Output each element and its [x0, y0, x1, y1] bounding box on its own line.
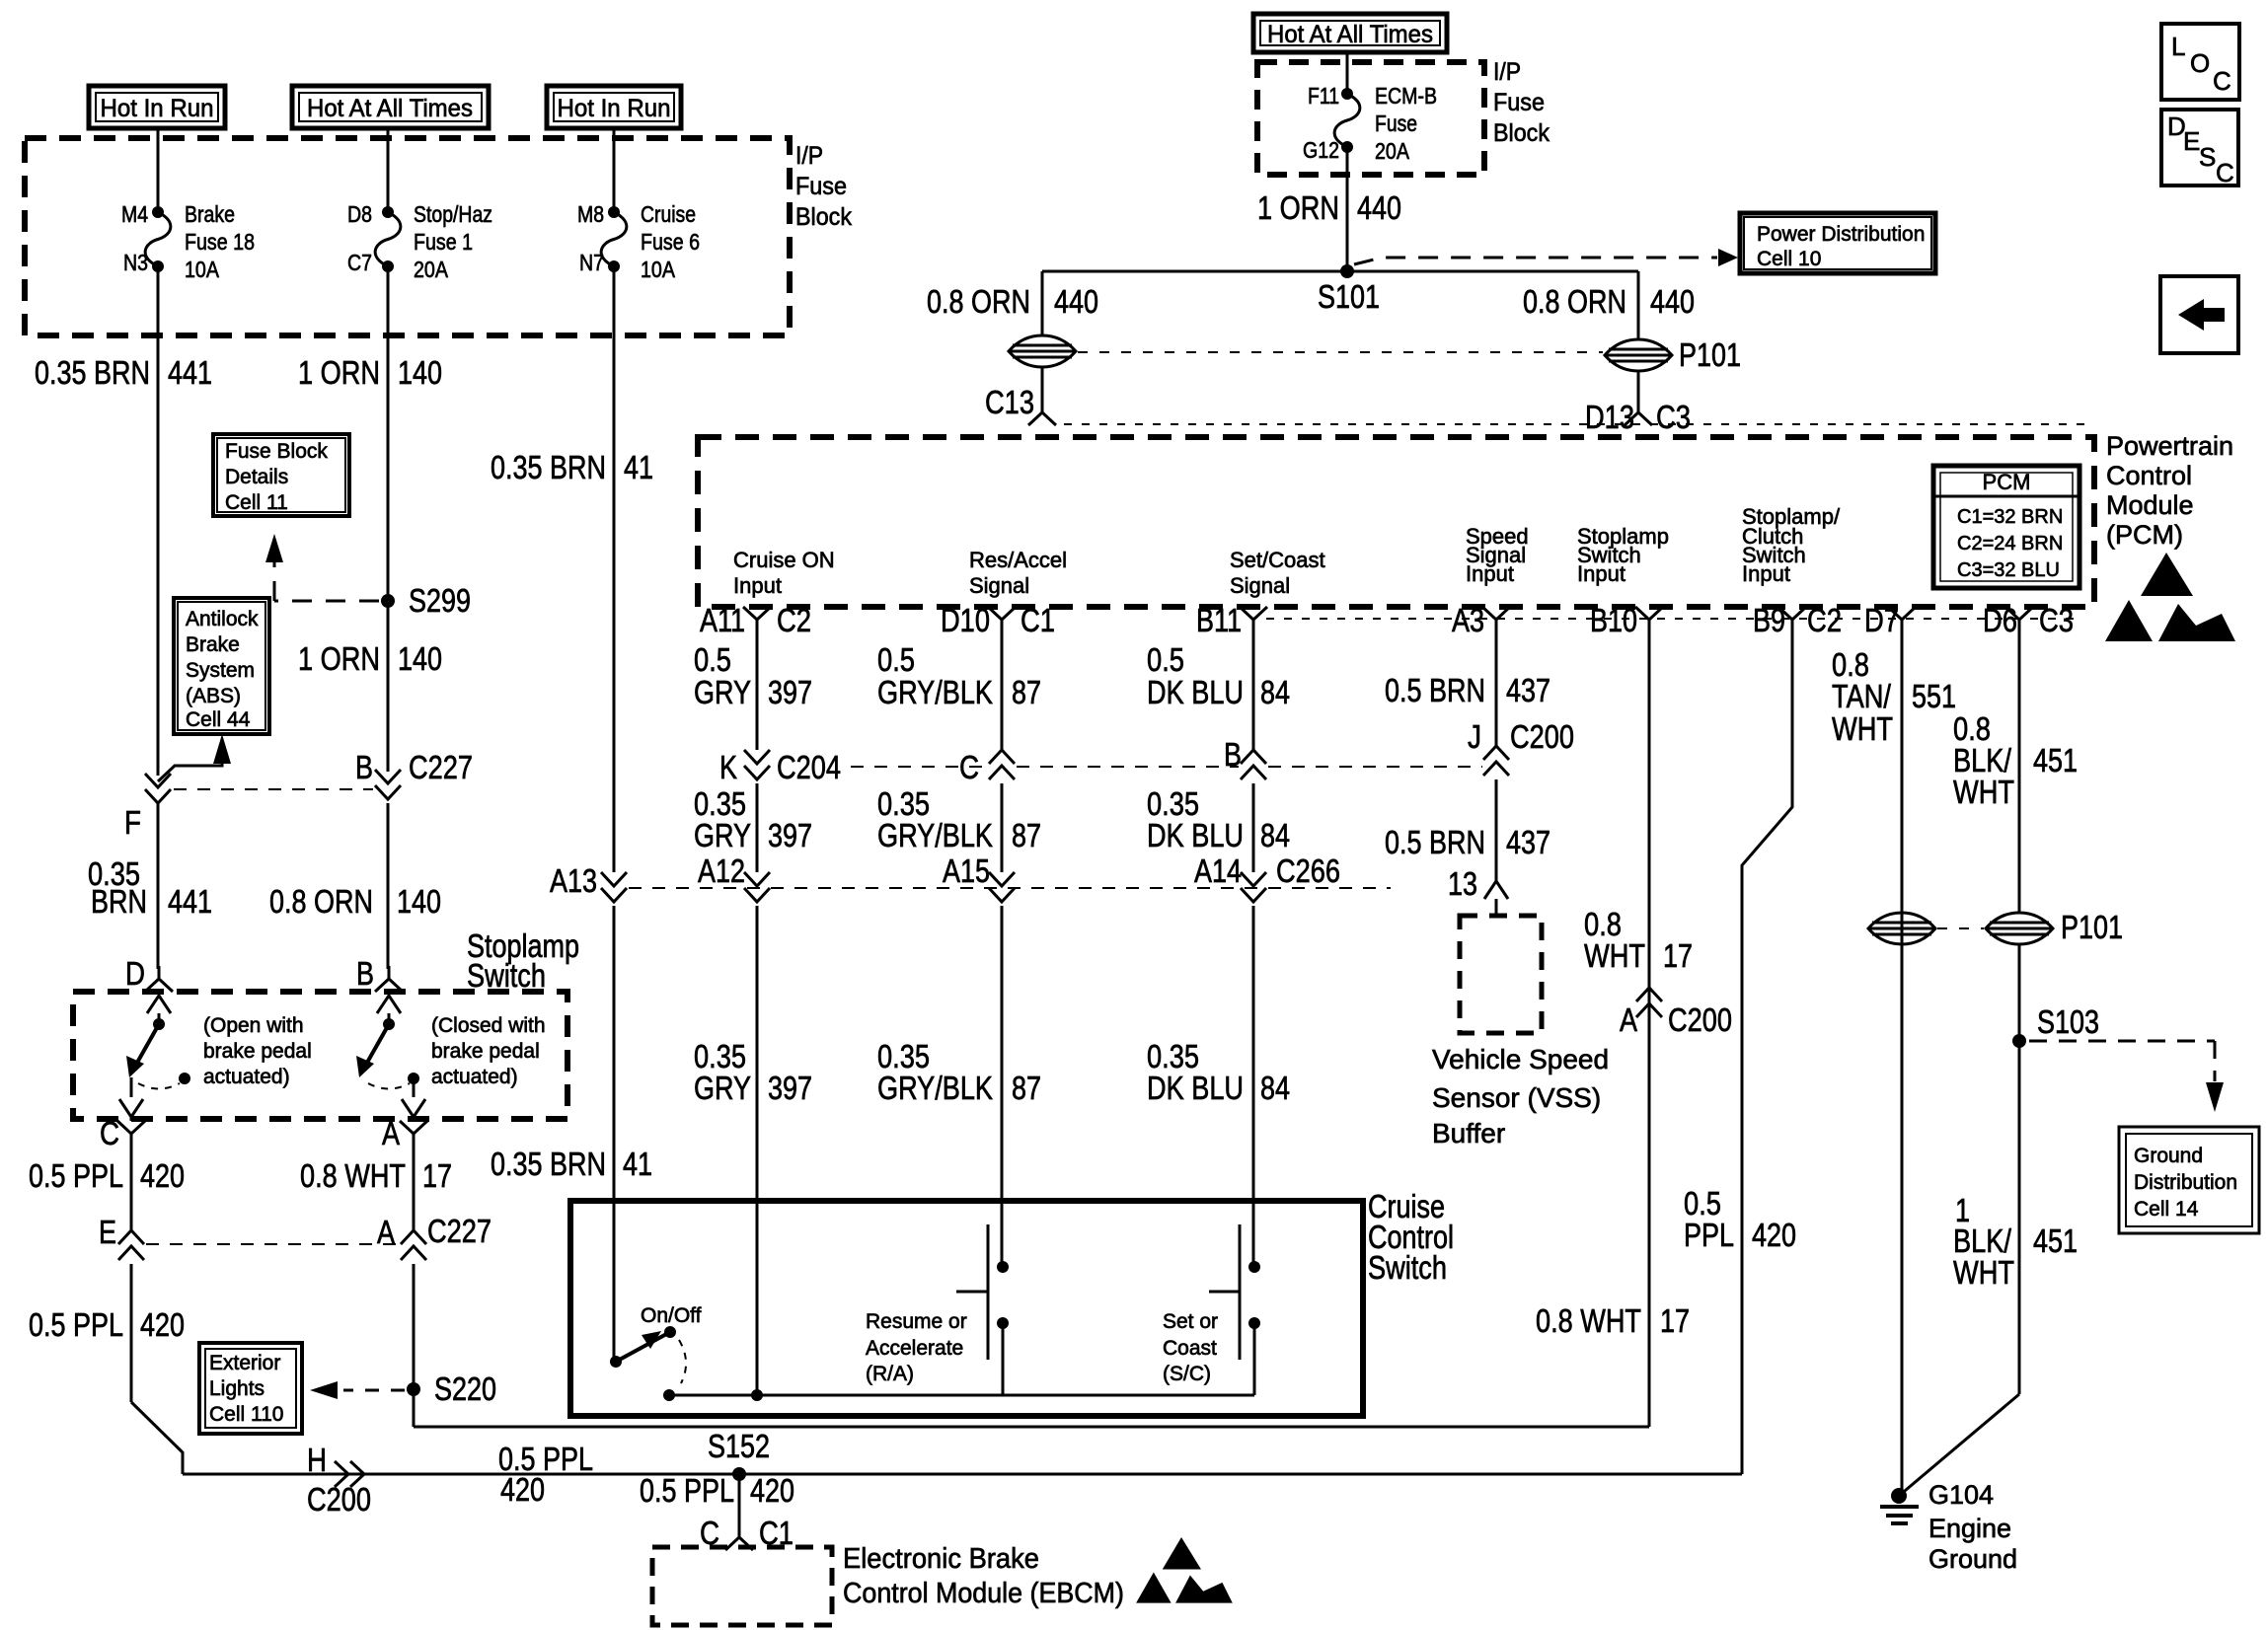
wire 0.5 GRY/BLK 87 (D10 to C) [1001, 632, 1004, 750]
svg-text:C200: C200 [1510, 718, 1574, 755]
svg-text:420: 420 [140, 1157, 185, 1194]
svg-text:Buffer: Buffer [1432, 1118, 1505, 1148]
wire 0.5 DK BLU 84 (B11 to B) [1252, 632, 1255, 750]
svg-text:J: J [1468, 718, 1481, 755]
svg-text:ECM-B: ECM-B [1375, 83, 1437, 109]
svg-text:420: 420 [140, 1306, 185, 1343]
svg-text:C3: C3 [1656, 399, 1691, 435]
svg-text:Fuse: Fuse [795, 173, 847, 200]
svg-text:Input: Input [1742, 561, 1790, 586]
svg-text:D10: D10 [941, 602, 990, 638]
connector C chevron (C204) [989, 750, 1015, 779]
wire 0.8 ORN 440 left branch [1041, 271, 1044, 335]
svg-text:Set/Coast: Set/Coast [1230, 548, 1325, 572]
svg-text:WHT: WHT [1953, 1254, 2014, 1291]
svg-text:E: E [99, 1214, 116, 1250]
svg-text:B: B [356, 955, 374, 992]
svg-text:Signal: Signal [1230, 573, 1290, 598]
svg-text:Details: Details [225, 466, 288, 488]
svg-text:S220: S220 [434, 1371, 496, 1407]
wire 0.8 ORN 140 from C227 to stoplamp switch B [387, 803, 390, 969]
svg-text:S: S [2199, 142, 2216, 172]
svg-text:0.5 BRN: 0.5 BRN [1385, 824, 1485, 860]
svg-text:0.8 ORN: 0.8 ORN [269, 883, 373, 920]
svg-text:Engine: Engine [1928, 1514, 2011, 1543]
svg-text:DK BLU: DK BLU [1147, 1070, 1244, 1106]
svg-text:C227: C227 [409, 749, 473, 785]
svg-text:(Open with: (Open with [203, 1014, 304, 1037]
set/coast contact [1239, 1224, 1242, 1360]
svg-text:C7: C7 [347, 250, 372, 275]
svg-text:DK BLU: DK BLU [1147, 674, 1244, 710]
svg-text:Cell 10: Cell 10 [1757, 248, 1821, 270]
PCM module dashed outline [698, 437, 2094, 607]
wire 1 ORN 140 from C7 to S299 [387, 266, 390, 601]
svg-text:brake pedal: brake pedal [431, 1040, 540, 1063]
svg-text:Power Distribution: Power Distribution [1757, 223, 1925, 246]
header box Hot At All Times [292, 86, 489, 128]
pin B10 [1635, 607, 1663, 632]
wire 0.8 WHT 17 (B10 down) [1648, 632, 1651, 1427]
svg-text:A12: A12 [698, 852, 745, 889]
svg-text:Cell 44: Cell 44 [186, 708, 251, 731]
svg-text:0.5 PPL: 0.5 PPL [29, 1306, 123, 1343]
svg-text:F11: F11 [1308, 83, 1339, 109]
svg-text:441: 441 [168, 883, 212, 920]
svg-text:1 ORN: 1 ORN [298, 354, 380, 391]
svg-text:Hot In Run: Hot In Run [558, 95, 671, 122]
dashed reference line from S299 to Fuse Block Details box [274, 600, 379, 603]
header box Hot In Run (right) [547, 86, 681, 128]
left switch output wire to C [130, 1077, 133, 1097]
PCM pin boundary thin dashed line (C1/C3) [1266, 618, 2078, 620]
svg-text:Module: Module [2106, 490, 2194, 520]
svg-text:0.35 BRN: 0.35 BRN [491, 1146, 606, 1182]
splice S220 [407, 1382, 420, 1396]
svg-text:C1: C1 [1021, 602, 1055, 638]
pin B11 [1240, 607, 1267, 632]
svg-text:S103: S103 [2037, 1003, 2099, 1040]
svg-text:551: 551 [1912, 678, 1956, 714]
pin A of stoplamp switch [400, 1121, 427, 1147]
svg-text:C: C [2213, 66, 2231, 96]
svg-text:actuated): actuated) [431, 1066, 518, 1088]
svg-text:Hot At All Times: Hot At All Times [307, 95, 473, 122]
pin B9 / C2 [1778, 607, 1806, 632]
wire from Hot In Run to Cruise Fuse [613, 128, 616, 212]
svg-text:10A: 10A [641, 257, 676, 282]
svg-text:Switch: Switch [1368, 1249, 1447, 1286]
I/P Fuse Block dashed outline [25, 138, 790, 335]
wire 0.5 BRN 437 (A3 to J) [1495, 632, 1498, 746]
box Fuse Block Details Cell 11 [213, 434, 349, 516]
svg-text:C: C [100, 1115, 119, 1151]
connector H / C200 chevron [335, 1461, 364, 1487]
svg-text:0.8 WHT: 0.8 WHT [300, 1157, 406, 1194]
svg-text:DK BLU: DK BLU [1147, 817, 1244, 853]
connector A / C200 chevron [1636, 988, 1662, 1017]
svg-text:0.5: 0.5 [1147, 641, 1184, 678]
svg-text:H: H [307, 1442, 327, 1478]
svg-text:On/Off: On/Off [641, 1304, 702, 1327]
svg-text:C266: C266 [1276, 852, 1340, 889]
svg-text:A11: A11 [700, 602, 745, 638]
resume/accelerate contact [987, 1224, 990, 1360]
svg-text:0.8 ORN: 0.8 ORN [1523, 283, 1626, 320]
svg-text:0.8 ORN: 0.8 ORN [927, 283, 1030, 320]
connector J / C200 chevron [1483, 746, 1509, 776]
svg-text:Switch: Switch [467, 957, 546, 994]
svg-text:N3: N3 [123, 250, 148, 275]
svg-text:D: D [125, 955, 145, 992]
svg-text:Control: Control [2106, 461, 2192, 490]
svg-text:B10: B10 [1590, 602, 1637, 638]
svg-text:0.8 WHT: 0.8 WHT [1536, 1302, 1641, 1339]
svg-text:L: L [2171, 32, 2185, 61]
wire from Hot At All Times to Stop/Haz Fuse [387, 128, 390, 212]
svg-text:WHT: WHT [1584, 937, 1645, 974]
svg-text:Brake: Brake [185, 201, 235, 227]
svg-text:Input: Input [733, 573, 782, 598]
svg-text:N7: N7 [579, 250, 604, 275]
wire 0.35 DK BLU 84 (A14 to cruise switch) [1252, 906, 1255, 1267]
svg-text:0.5: 0.5 [877, 641, 915, 678]
svg-text:Cell 110: Cell 110 [209, 1403, 284, 1426]
svg-text:C3: C3 [2039, 602, 2074, 638]
svg-text:Block: Block [795, 203, 852, 231]
wire 0.8 BLK/WHT 451 (D6 down) [2018, 632, 2021, 913]
svg-text:G12: G12 [1303, 137, 1339, 163]
stoplamp switch dashed box [73, 992, 567, 1119]
LOC legend box [2161, 24, 2239, 100]
svg-text:C2: C2 [1807, 602, 1842, 638]
svg-text:GRY: GRY [694, 817, 751, 853]
wire 0.8 WHT 17 from A to S220 [413, 1147, 416, 1230]
wire 0.35 GRY/BLK 87 (C to A15) [1001, 783, 1004, 872]
svg-text:Control Module (EBCM): Control Module (EBCM) [843, 1578, 1124, 1609]
header box Hot At All Times (top) [1253, 14, 1447, 52]
svg-text:0.35 BRN: 0.35 BRN [35, 354, 150, 391]
wire 0.5 GRY 397 (A11 to K) [756, 632, 759, 750]
svg-text:A: A [1620, 1001, 1637, 1038]
svg-text:D8: D8 [347, 201, 372, 227]
svg-text:397: 397 [768, 817, 812, 853]
svg-text:C13: C13 [985, 384, 1034, 420]
dashed reference to Ground Distribution Cell 14 [2029, 1040, 2215, 1043]
svg-text:397: 397 [768, 674, 812, 710]
svg-text:420: 420 [750, 1472, 794, 1509]
wire 0.35 BRN 41 from N7 down to A13 [613, 266, 616, 872]
wire S101 horizontal [1042, 270, 1638, 273]
svg-text:0.35 BRN: 0.35 BRN [491, 449, 606, 485]
connector B / C227 chevron [375, 770, 401, 799]
svg-text:G104: G104 [1928, 1480, 1994, 1510]
svg-text:actuated): actuated) [203, 1066, 290, 1088]
svg-text:TAN/: TAN/ [1832, 678, 1892, 714]
wire 0.35 BRN 441 from F to stoplamp switch D [157, 803, 160, 969]
svg-text:BRN: BRN [91, 883, 147, 920]
fuse Brake Fuse 18 10A (M4/N3) [152, 206, 164, 218]
wire below P101 to S103 [2018, 944, 2021, 1394]
connector E / A C227 line [118, 1230, 144, 1260]
svg-text:20A: 20A [414, 257, 449, 282]
svg-text:440: 440 [1054, 283, 1098, 320]
svg-text:Hot At All Times: Hot At All Times [1267, 21, 1433, 48]
svg-text:1 ORN: 1 ORN [1257, 189, 1339, 226]
pin 13 chevron of VSS buffer [1484, 881, 1508, 899]
svg-text:B9: B9 [1753, 602, 1785, 638]
svg-text:Lights: Lights [209, 1377, 265, 1400]
svg-text:Fuse 1: Fuse 1 [414, 229, 473, 255]
connector boundary dashed line C13..C3 [1064, 423, 2087, 425]
svg-text:B: B [355, 749, 373, 785]
svg-text:Input: Input [1577, 561, 1625, 586]
pin C / C1 of EBCM [725, 1524, 753, 1550]
svg-text:(R/A): (R/A) [866, 1363, 914, 1385]
wire 0.5 PPL 420 to EBCM [738, 1474, 741, 1524]
svg-text:Cruise: Cruise [641, 201, 696, 227]
right switch output wire to A [413, 1078, 416, 1097]
dashed line between P101 lenses [1937, 927, 1984, 929]
svg-text:437: 437 [1506, 824, 1550, 860]
svg-text:(PCM): (PCM) [2106, 520, 2183, 550]
svg-text:Exterior: Exterior [209, 1352, 280, 1374]
wire below lens to C13 pin [1041, 367, 1044, 400]
svg-text:C3=32 BLU: C3=32 BLU [1957, 559, 2060, 581]
svg-text:1 ORN: 1 ORN [298, 640, 380, 677]
pin D6 / C3 [2005, 607, 2033, 632]
wire 1 ORN 440 from G12 to S101 [1346, 147, 1349, 271]
svg-text:Resume or: Resume or [866, 1310, 967, 1333]
svg-text:D6: D6 [1983, 602, 2017, 638]
ground G104 symbol [1891, 1488, 1907, 1504]
splice S103 [2012, 1034, 2026, 1048]
svg-text:0.5 PPL: 0.5 PPL [640, 1472, 734, 1509]
wire 0.5 BRN 437 (J to pin 13) [1495, 779, 1498, 881]
back arrow legend box [2160, 276, 2238, 353]
svg-text:Cell 11: Cell 11 [225, 491, 288, 514]
svg-text:C200: C200 [307, 1481, 371, 1518]
svg-text:10A: 10A [185, 257, 220, 282]
svg-text:C200: C200 [1668, 1001, 1732, 1038]
connector line C266 dashed (A13-A12-A15-A14) [629, 887, 1391, 889]
fuse Cruise Fuse 6 10A (M8/N7) [608, 206, 620, 218]
fuse Stop/Haz Fuse 1 20A (D8/C7) [382, 206, 394, 218]
connector A13 chevron [601, 872, 627, 902]
right switch contact (B-A) [377, 996, 401, 1013]
svg-text:Ground: Ground [1928, 1544, 2017, 1574]
branch wire to ABS cell 44 box [158, 762, 222, 781]
svg-text:A14: A14 [1194, 852, 1242, 889]
svg-text:B11: B11 [1196, 602, 1242, 638]
svg-text:Res/Accel: Res/Accel [969, 548, 1067, 572]
svg-text:A13: A13 [550, 862, 597, 899]
inline connector C13 lens [1009, 335, 1076, 367]
svg-text:M8: M8 [577, 201, 604, 227]
connector A14 / C266 chevron [1241, 872, 1266, 902]
svg-text:17: 17 [1663, 937, 1693, 974]
splice S152 [732, 1467, 746, 1481]
connector B chevron (C204) [1241, 750, 1266, 779]
svg-text:20A: 20A [1375, 138, 1410, 164]
svg-text:I/P: I/P [1493, 58, 1521, 86]
wire below P101 to D13/C3 pin [1637, 371, 1640, 400]
svg-text:E: E [2183, 126, 2200, 156]
svg-text:140: 140 [398, 354, 442, 391]
wire from Hot In Run to Brake Fuse [157, 128, 160, 212]
svg-text:17: 17 [422, 1157, 452, 1194]
dashed reference to Exterior Lights Cell 110 [343, 1389, 405, 1392]
connector line C204 dashed [851, 766, 987, 768]
wire into ECM-B fuse [1346, 52, 1349, 94]
svg-text:Accelerate: Accelerate [866, 1337, 963, 1360]
svg-text:C: C [2216, 158, 2234, 187]
box Vehicle Speed Sensor (VSS) Buffer dashed [1460, 916, 1542, 1033]
splice S299 [381, 594, 395, 608]
wire 0.8 TAN/WHT 551 (D7 down) [1901, 632, 1904, 1496]
svg-text:GRY: GRY [694, 674, 751, 710]
inline connector P101 lens on D6 wire [1986, 913, 2053, 944]
ESD static sensitive symbol (EBCM) [1136, 1537, 1233, 1603]
svg-text:GRY: GRY [694, 1070, 751, 1106]
svg-text:A3: A3 [1452, 602, 1484, 638]
svg-text:Antilock: Antilock [186, 608, 259, 630]
connector K / C204 [744, 750, 770, 779]
svg-text:(S/C): (S/C) [1163, 1363, 1211, 1385]
svg-text:420: 420 [500, 1471, 545, 1508]
svg-text:440: 440 [1357, 189, 1401, 226]
svg-text:420: 420 [1752, 1217, 1796, 1253]
svg-text:M4: M4 [121, 201, 148, 227]
svg-text:A: A [382, 1115, 400, 1151]
svg-text:Fuse: Fuse [1493, 89, 1545, 116]
svg-text:A: A [377, 1214, 395, 1250]
svg-text:0.5: 0.5 [694, 641, 731, 678]
svg-text:Powertrain: Powertrain [2106, 431, 2233, 461]
svg-text:S101: S101 [1318, 278, 1380, 315]
svg-text:437: 437 [1506, 672, 1550, 708]
svg-text:K: K [719, 749, 737, 785]
fuse ECM-B Fuse 20A (F11/G12) [1341, 88, 1353, 100]
svg-text:451: 451 [2033, 1222, 2078, 1259]
wire 0.5 PPL 420 (B9 down with jog) [1742, 632, 1792, 1474]
svg-text:GRY/BLK: GRY/BLK [877, 1070, 993, 1106]
wire 0.5 PPL 420 from E down and across [130, 1264, 133, 1402]
svg-text:P101: P101 [1679, 336, 1741, 373]
svg-text:Fuse Block: Fuse Block [225, 440, 328, 463]
svg-text:440: 440 [1650, 283, 1695, 320]
inline connector lens on D7 wire [1868, 913, 1935, 944]
svg-text:397: 397 [768, 1070, 812, 1106]
DESC legend box [2161, 110, 2238, 185]
svg-text:C1=32 BRN: C1=32 BRN [1957, 506, 2063, 528]
connector F chevron [145, 774, 171, 803]
svg-text:C227: C227 [427, 1213, 491, 1249]
wire diagonal to G104 ground [1899, 1394, 2019, 1496]
svg-text:B: B [1224, 736, 1242, 773]
pin A3 [1482, 607, 1510, 632]
svg-text:Vehicle Speed: Vehicle Speed [1432, 1044, 1609, 1074]
svg-text:17: 17 [1660, 1302, 1690, 1339]
header box Hot In Run (left) [89, 86, 225, 128]
svg-text:F: F [124, 804, 141, 841]
svg-text:84: 84 [1260, 1070, 1290, 1106]
svg-text:84: 84 [1260, 817, 1290, 853]
svg-text:441: 441 [168, 354, 212, 391]
cruise switch bus wire [663, 1389, 675, 1401]
svg-text:Block: Block [1493, 119, 1550, 147]
on/off switch [610, 1356, 622, 1368]
svg-text:(ABS): (ABS) [186, 685, 241, 707]
box Power Distribution Cell 10 [1740, 213, 1935, 273]
I/P Fuse Block dashed outline (ECM-B) [1257, 62, 1484, 175]
PCM connector info box [1933, 466, 2079, 588]
svg-text:41: 41 [624, 449, 653, 485]
svg-text:Cell 14: Cell 14 [2134, 1198, 2199, 1221]
svg-text:I/P: I/P [795, 142, 823, 170]
dashed line C13-P101 [1078, 351, 1603, 353]
wire 0.35 GRY/BLK 87 (A15 to cruise switch) [1001, 906, 1004, 1267]
svg-text:Ground: Ground [2134, 1145, 2203, 1167]
svg-text:Cruise ON: Cruise ON [733, 548, 835, 572]
svg-text:87: 87 [1012, 1070, 1041, 1106]
wire 0.35 DK BLU 84 (B to A14) [1252, 783, 1255, 872]
svg-text:A15: A15 [943, 852, 990, 889]
svg-text:84: 84 [1260, 674, 1290, 710]
svg-text:P101: P101 [2061, 909, 2123, 945]
svg-text:S299: S299 [409, 582, 471, 619]
connector A12 chevron [744, 872, 770, 902]
pin D10 / C1 [988, 607, 1016, 632]
pin C of stoplamp switch [117, 1121, 145, 1147]
wire 0.8 WHT 17 horizontal run [414, 1426, 1649, 1429]
svg-text:Distribution: Distribution [2134, 1171, 2237, 1194]
left switch contact (D-C) [147, 996, 171, 1013]
ESD static sensitive symbol (PCM) [2105, 553, 2235, 641]
svg-text:C204: C204 [777, 749, 841, 785]
connector line C227 upper (F-B) dashed [174, 788, 373, 790]
wire 0.5 PPL 420 horizontal run to B9 [183, 1473, 1742, 1476]
svg-text:D7: D7 [1864, 602, 1899, 638]
svg-text:Fuse: Fuse [1375, 111, 1417, 136]
box Exterior Lights Cell 110 [199, 1343, 302, 1434]
svg-text:Fuse 6: Fuse 6 [641, 229, 700, 255]
wire 0.35 BRN 441 from N3 down to F [157, 266, 160, 776]
dashed reference arrow to Power Distribution Cell 10 [1354, 258, 1717, 264]
svg-text:Coast: Coast [1163, 1337, 1217, 1360]
wire 0.35 BRN 41 from A13 to cruise switch [613, 906, 616, 1362]
pin D13 / C3 into PCM [1625, 400, 1652, 425]
svg-text:Fuse 18: Fuse 18 [185, 229, 255, 255]
svg-text:Signal: Signal [969, 573, 1029, 598]
svg-text:87: 87 [1012, 817, 1041, 853]
svg-text:C: C [959, 749, 979, 785]
svg-text:System: System [186, 659, 255, 682]
svg-text:O: O [2190, 48, 2210, 78]
svg-text:D13: D13 [1585, 399, 1634, 435]
svg-text:13: 13 [1448, 865, 1477, 902]
svg-text:Sensor (VSS): Sensor (VSS) [1432, 1082, 1601, 1113]
svg-text:41: 41 [623, 1146, 652, 1182]
cruise control switch box [570, 1201, 1363, 1416]
wire into VSS buffer box [1495, 899, 1498, 916]
wire 0.35 GRY 397 (K to A12) [756, 783, 759, 872]
svg-text:WHT: WHT [1832, 710, 1893, 747]
svg-text:brake pedal: brake pedal [203, 1040, 312, 1063]
box Antilock Brake System (ABS) Cell 44 [174, 598, 269, 734]
wire 0.35 GRY 397 (A12 to cruise switch) [756, 906, 759, 1395]
svg-text:451: 451 [2033, 742, 2078, 778]
